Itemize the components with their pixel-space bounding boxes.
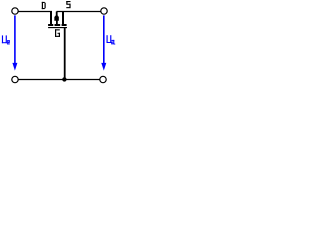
- terminal top-left: [12, 8, 18, 14]
- transistor Q1 (MOSFET) drain lead: [50, 12, 52, 25]
- arrow Ue (input voltage, left): [14, 15, 16, 63]
- label Ua (output voltage): [107, 35, 116, 44]
- label D (drain): [42, 2, 46, 9]
- transistor Q1 bulk stem upper: [56, 12, 58, 16]
- wire bottom rail: [18, 79, 100, 81]
- transistor Q1 bulk channel bar: [55, 24, 61, 26]
- label S (source): [66, 1, 70, 8]
- terminal bottom-left: [12, 76, 18, 82]
- transistor Q1 source channel bar: [62, 24, 67, 26]
- transistor Q1 gate line: [48, 27, 67, 28]
- wire gate lead down: [64, 28, 66, 79]
- transistor Q1 bulk arrow: [54, 15, 59, 20]
- label G (gate): [55, 29, 60, 37]
- wire top-left (input to drain): [18, 11, 52, 13]
- label Ue (input voltage): [2, 35, 10, 44]
- transistor Q1 drain channel bar: [48, 24, 53, 26]
- junction dot gate/bottom rail: [62, 77, 66, 81]
- transistor Q1 source lead: [62, 12, 64, 25]
- arrow Ua (output voltage, right): [103, 15, 105, 63]
- wire top-right (bulk/source to output): [57, 11, 101, 13]
- transistor Q1 bulk stem lower: [56, 21, 58, 25]
- terminal bottom-right: [100, 76, 106, 82]
- terminal top-right: [101, 8, 107, 14]
